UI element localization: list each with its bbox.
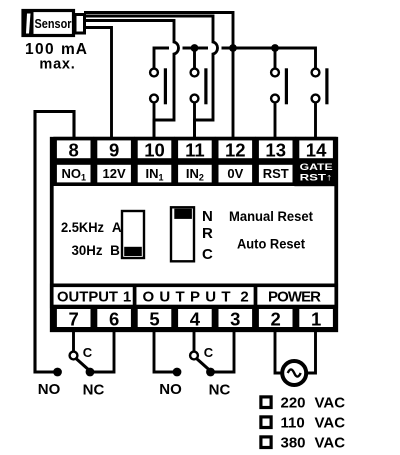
relay K1 common contact	[70, 352, 78, 360]
svg-text:10: 10	[144, 140, 165, 161]
svg-text:OUTPUT: OUTPUT	[57, 288, 118, 305]
relay K2 common contact	[190, 352, 198, 360]
svg-text:RST↑: RST↑	[300, 173, 333, 184]
wire terminal 2 to AC source	[275, 331, 283, 373]
AC source G1	[282, 361, 306, 385]
svg-text:12V: 12V	[103, 166, 126, 181]
svg-text:2.5KHz: 2.5KHz	[61, 220, 104, 235]
wire stub bus to S3	[274, 48, 277, 69]
label 12V	[96, 163, 133, 184]
svg-text:8: 8	[69, 140, 79, 161]
checkbox 380 VAC	[261, 435, 345, 452]
relay K1 NO contact	[53, 368, 62, 377]
svg-text:9: 9	[109, 140, 119, 161]
svg-text:6: 6	[109, 308, 119, 329]
terminal 13	[257, 139, 294, 161]
checkbox 110 VAC	[261, 415, 345, 432]
pushbutton S4 (GATE RST)	[312, 68, 329, 137]
terminal 5	[136, 307, 173, 329]
dip switch SW1 A/B	[122, 211, 144, 258]
svg-text:C: C	[204, 345, 214, 360]
svg-text:2: 2	[240, 288, 248, 305]
svg-text:Auto Reset: Auto Reset	[237, 236, 305, 251]
section OUTPUT 1 header	[52, 285, 135, 306]
svg-text:4: 4	[190, 308, 201, 329]
svg-text:N: N	[202, 208, 213, 225]
pushbutton S2 (IN2)	[191, 68, 208, 137]
label 100 mA max	[25, 41, 88, 72]
junction S2 bus	[191, 44, 199, 52]
svg-text:VAC: VAC	[315, 435, 346, 452]
svg-text:Manual Reset: Manual Reset	[229, 209, 313, 224]
wire sensor IN2 to terminal 11 (hops bus)	[84, 16, 218, 137]
terminal 7	[55, 307, 92, 329]
svg-text:NO: NO	[159, 381, 182, 398]
wire terminal 8 NO1 to relay NO contact	[35, 112, 74, 373]
svg-text:110: 110	[281, 415, 305, 432]
pushbutton S3 (RST)	[271, 68, 288, 137]
bus wire 0V common segment 1	[154, 48, 169, 69]
terminal 9	[96, 139, 133, 161]
section OUTPUT 2 header	[135, 285, 256, 306]
checkbox 220 VAC	[261, 395, 345, 412]
svg-text:2: 2	[271, 308, 281, 329]
svg-text:5: 5	[149, 308, 159, 329]
svg-text:B: B	[110, 243, 120, 258]
relay K2 NC contact	[206, 368, 215, 377]
junction S3 bus	[271, 44, 279, 52]
terminal 1	[298, 307, 335, 329]
svg-text:Sensor: Sensor	[35, 16, 72, 31]
bus wire 0V common segment 2	[183, 47, 209, 50]
dip switch SW2 N/R/C	[171, 207, 194, 261]
svg-text:NC: NC	[83, 382, 105, 399]
sensor connector	[75, 15, 85, 34]
svg-text:C: C	[202, 246, 213, 263]
wire relay K1 NC to terminal 6	[90, 331, 114, 372]
label NO1	[55, 163, 92, 184]
wire stub bus to S2	[193, 48, 196, 69]
label GATE RST inverted	[294, 160, 336, 186]
svg-text:NC: NC	[209, 382, 231, 399]
svg-text:R: R	[202, 225, 213, 242]
svg-text:7: 7	[69, 308, 79, 329]
svg-text:11: 11	[185, 140, 205, 161]
main unit outline	[52, 139, 337, 331]
wire terminal 1 to AC source	[306, 331, 316, 373]
svg-text:12: 12	[225, 140, 246, 161]
wire terminal 7 to relay common K1	[72, 331, 75, 351]
terminal 2	[257, 307, 294, 329]
label 0V	[217, 163, 254, 184]
svg-text:380: 380	[281, 435, 306, 452]
svg-text:3: 3	[230, 308, 240, 329]
terminal 10	[136, 139, 173, 161]
svg-text:1: 1	[311, 308, 321, 329]
relay K2 NO contact	[173, 368, 182, 377]
svg-text:30Hz: 30Hz	[72, 243, 103, 258]
label 30Hz B	[72, 243, 121, 258]
svg-text:NO: NO	[38, 381, 61, 398]
terminal 14	[298, 139, 335, 161]
terminal 3	[217, 307, 254, 329]
svg-text:14: 14	[306, 140, 327, 161]
wire terminal 5 to relay K2 NO	[154, 331, 177, 372]
svg-text:VAC: VAC	[315, 395, 346, 412]
svg-text:RST: RST	[263, 166, 289, 181]
bus wire 0V common segment 3	[222, 48, 316, 69]
junction 0V bus	[229, 44, 237, 52]
terminal 8	[55, 139, 92, 161]
wire sensor IN1 to terminal 10 (hops bus)	[84, 21, 179, 138]
terminal 6	[96, 307, 133, 329]
label RST	[257, 163, 294, 184]
svg-text:1: 1	[123, 288, 131, 305]
relay K1 arm to NC	[76, 359, 90, 372]
svg-text:220: 220	[281, 395, 306, 412]
label 2.5KHz A	[61, 220, 122, 235]
svg-text:A: A	[112, 220, 122, 235]
relay K2 arm to NC	[197, 359, 211, 372]
svg-text:max.: max.	[39, 57, 75, 73]
svg-text:C: C	[83, 345, 93, 360]
wire relay K2 NC to terminal 3	[211, 331, 235, 372]
terminal 12	[217, 139, 254, 161]
sensor body	[23, 11, 74, 36]
relay K1 NC contact	[86, 368, 95, 377]
section POWER header	[256, 285, 337, 306]
label IN1	[136, 163, 173, 184]
terminal 11	[176, 139, 213, 161]
wire sensor 0V to terminal 12	[84, 13, 233, 138]
svg-text:GATE: GATE	[300, 162, 333, 173]
terminal 4	[176, 307, 213, 329]
label IN2	[176, 163, 213, 184]
labels N R C	[202, 208, 213, 263]
svg-text:13: 13	[265, 140, 286, 161]
svg-text:VAC: VAC	[315, 415, 346, 432]
wire sensor 12V to terminal 9	[84, 28, 112, 138]
svg-text:0V: 0V	[227, 166, 243, 181]
svg-text:POWER: POWER	[268, 288, 321, 305]
wire terminal 4 to relay common K2	[193, 331, 196, 351]
pushbutton S1 (IN1)	[150, 68, 167, 137]
